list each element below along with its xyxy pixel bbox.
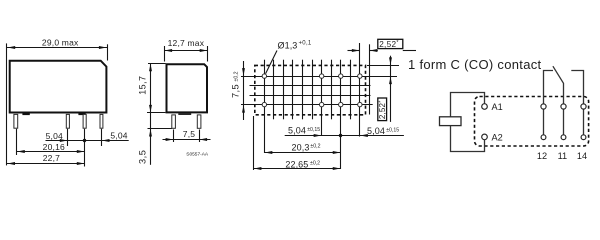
arrow up to row4: [242, 105, 245, 113]
hole D bottom: [358, 102, 362, 106]
contact 14 circle bottom: [581, 135, 586, 140]
arrow down 15,7: [149, 105, 152, 113]
svg-text:7,5: 7,5: [183, 129, 195, 139]
grid vertical col9 + extension 22,65: [340, 60, 342, 169]
extension line right: [107, 44, 109, 60]
foot tab left: [22, 113, 29, 115]
grid vertical col8: [331, 60, 333, 120]
extension dashed-left-edge down: [253, 116, 255, 170]
contact 14 lead: [571, 71, 583, 104]
contact 11 connector: [563, 109, 565, 135]
svg-text:20,3: 20,3: [292, 142, 310, 152]
dimension 7,5 line: [163, 139, 211, 141]
svg-text:11: 11: [558, 151, 568, 161]
pin right side: [197, 115, 201, 128]
arrow right to col11: [352, 49, 360, 52]
arrow up to row1: [389, 77, 392, 85]
extension pin center right 7,5: [199, 130, 201, 143]
arrow right 29,0: [99, 46, 107, 49]
arrow left to 7,5 right: [200, 138, 208, 141]
svg-text:22,65: 22,65: [285, 159, 308, 169]
svg-text:±0,2: ±0,2: [310, 160, 320, 166]
coil: [440, 117, 462, 126]
grid vertical col5: [302, 60, 304, 120]
svg-text:2,52*: 2,52*: [379, 40, 399, 49]
extension pin center left 7,5: [173, 130, 175, 143]
contact 12 circle bottom: [541, 135, 546, 140]
pin extension line D: [101, 129, 103, 146]
terminal A1: [482, 104, 488, 110]
dashed body outline: [255, 65, 366, 114]
junction dot col9: [339, 134, 342, 137]
coil wire A1: [451, 93, 485, 117]
pin 3: [83, 114, 86, 128]
grid row1: [241, 76, 397, 78]
dimension vertical line 15,7 / 3,5: [150, 63, 152, 165]
grid vertical col10: [350, 60, 352, 120]
dimension 20,3 line: [264, 152, 340, 154]
arrow left to col12 + line to box: [369, 50, 377, 52]
grid vertical col2: [273, 60, 275, 120]
extension pin-end line: [148, 128, 172, 130]
arrow up 15,7: [149, 64, 152, 72]
contact 11 circle top: [561, 104, 566, 109]
grid row4: [241, 104, 373, 106]
pin 2: [66, 114, 69, 128]
dimension 2,52 vertical line: [390, 56, 392, 122]
dimension 22,7 line: [7, 163, 85, 165]
dimension 7,5 vertical line: [243, 61, 245, 120]
svg-text:±0,15: ±0,15: [386, 128, 399, 134]
arrow left 12,7: [165, 49, 173, 52]
svg-text:±0,15: ±0,15: [307, 127, 320, 133]
foot tab side: [178, 113, 191, 115]
svg-text:12,7 max: 12,7 max: [168, 38, 205, 48]
dimension 5,04/5,04 line view3: [285, 135, 404, 137]
arrow right 12,7: [200, 49, 208, 52]
arrow up 3,5: [149, 129, 152, 137]
extension line right 12,7: [207, 46, 209, 62]
svg-text:S0557-AA: S0557-AA: [186, 152, 209, 158]
box 2,52 vertical: [378, 98, 387, 121]
svg-text:5,04: 5,04: [46, 131, 63, 141]
contact 12 connector: [543, 109, 545, 135]
svg-text:7,5: 7,5: [230, 84, 240, 98]
arrow right to pin B: [60, 139, 68, 142]
dimension 12,7 max line: [164, 50, 208, 52]
contact 11 circle bottom: [561, 135, 566, 140]
grid vertical col1 + extension 20,3: [264, 60, 266, 153]
svg-text:5,04: 5,04: [110, 131, 127, 141]
box 2,52 top: [378, 39, 403, 48]
arrow right to col7: [314, 134, 322, 137]
dimension 20,16 line: [17, 151, 85, 153]
arrow left 22,65: [254, 167, 262, 170]
grid vertical col3: [283, 60, 285, 120]
hole C bottom: [339, 102, 343, 106]
arrow right 20,3: [333, 151, 341, 154]
contact 11 lead + blade: [553, 66, 564, 104]
arrow right to 7,5 left: [166, 138, 174, 141]
pin 1: [14, 114, 18, 128]
arrow left 22,7: [7, 162, 15, 165]
dimension 2,52 top line: [348, 50, 360, 52]
svg-text:+0,1: +0,1: [299, 40, 312, 46]
grid row3: [250, 95, 371, 97]
pin extension line A: [16, 129, 18, 155]
svg-text:A1: A1: [492, 102, 503, 112]
relay body side: [167, 64, 208, 112]
svg-text:15,7: 15,7: [138, 76, 148, 95]
hole A bottom: [262, 102, 266, 106]
grid vertical col6: [312, 60, 314, 120]
dimension 29,0 max line: [7, 47, 107, 49]
pin extension line B: [67, 129, 69, 146]
dimension 22,65 line: [253, 168, 340, 170]
hole C top: [339, 74, 343, 78]
contact 12 lead: [544, 71, 554, 104]
svg-text:5,04: 5,04: [367, 126, 385, 136]
arrow down to top edge: [389, 57, 392, 65]
svg-text:12: 12: [537, 151, 547, 161]
hole B top: [319, 74, 323, 78]
hole D top: [358, 74, 362, 78]
arrow left to pin D: [102, 139, 110, 142]
svg-text:±0,2: ±0,2: [234, 71, 240, 81]
relay body front: [10, 61, 107, 113]
arrow left to col11: [360, 134, 368, 137]
grid vertical col11 + extension 2,52/5,04: [359, 43, 361, 137]
extension top body line: [148, 63, 166, 65]
arrow left 20,16: [17, 150, 25, 153]
svg-text:Ø1,3: Ø1,3: [278, 41, 298, 51]
arrow right 22,7: [77, 162, 85, 165]
terminal A2: [482, 134, 488, 140]
leader line hole diameter: [266, 51, 277, 74]
grid vertical col4: [292, 60, 294, 120]
contact 12 circle top: [541, 104, 546, 109]
grid vertical col7 + extension 5,04: [321, 60, 323, 136]
arrow left 29,0: [8, 46, 16, 49]
pin extension line C: [84, 129, 86, 167]
hole B bottom: [319, 102, 323, 106]
svg-text:14: 14: [577, 151, 587, 161]
top edge extension right: [367, 65, 399, 67]
svg-text:20,16: 20,16: [43, 142, 65, 152]
coil wire A2: [451, 126, 485, 152]
arrow down to row1: [242, 68, 245, 76]
svg-text:5,04: 5,04: [288, 126, 306, 136]
dimension 5,04 / 5,04 line: [46, 140, 129, 142]
contact 14 circle top: [581, 104, 586, 109]
contact 14 connector: [583, 109, 585, 135]
arrow left 20,3: [265, 151, 273, 154]
dashed relay outline: [475, 97, 589, 147]
line right of box: [403, 50, 416, 52]
pin left side: [172, 115, 176, 128]
extension bottom body line: [147, 112, 165, 114]
hole A top: [262, 74, 266, 78]
svg-text:29,0 max: 29,0 max: [42, 37, 79, 47]
svg-text:22,7: 22,7: [43, 153, 60, 163]
foot tab right: [78, 113, 85, 115]
arrow right 20,16: [77, 150, 85, 153]
arrow right 22,65: [333, 167, 341, 170]
extension line left: [6, 43, 8, 165]
junction dot pin C: [83, 139, 86, 142]
grid vertical col12: [369, 44, 371, 114]
pin 4: [100, 114, 103, 128]
extension line left 12,7: [164, 46, 166, 62]
svg-text:±0,2: ±0,2: [310, 144, 320, 150]
grid row2: [250, 85, 371, 87]
svg-text:1 form C (CO) contact: 1 form C (CO) contact: [408, 57, 542, 72]
svg-text:3,5: 3,5: [138, 150, 148, 164]
svg-text:A2: A2: [492, 133, 503, 143]
